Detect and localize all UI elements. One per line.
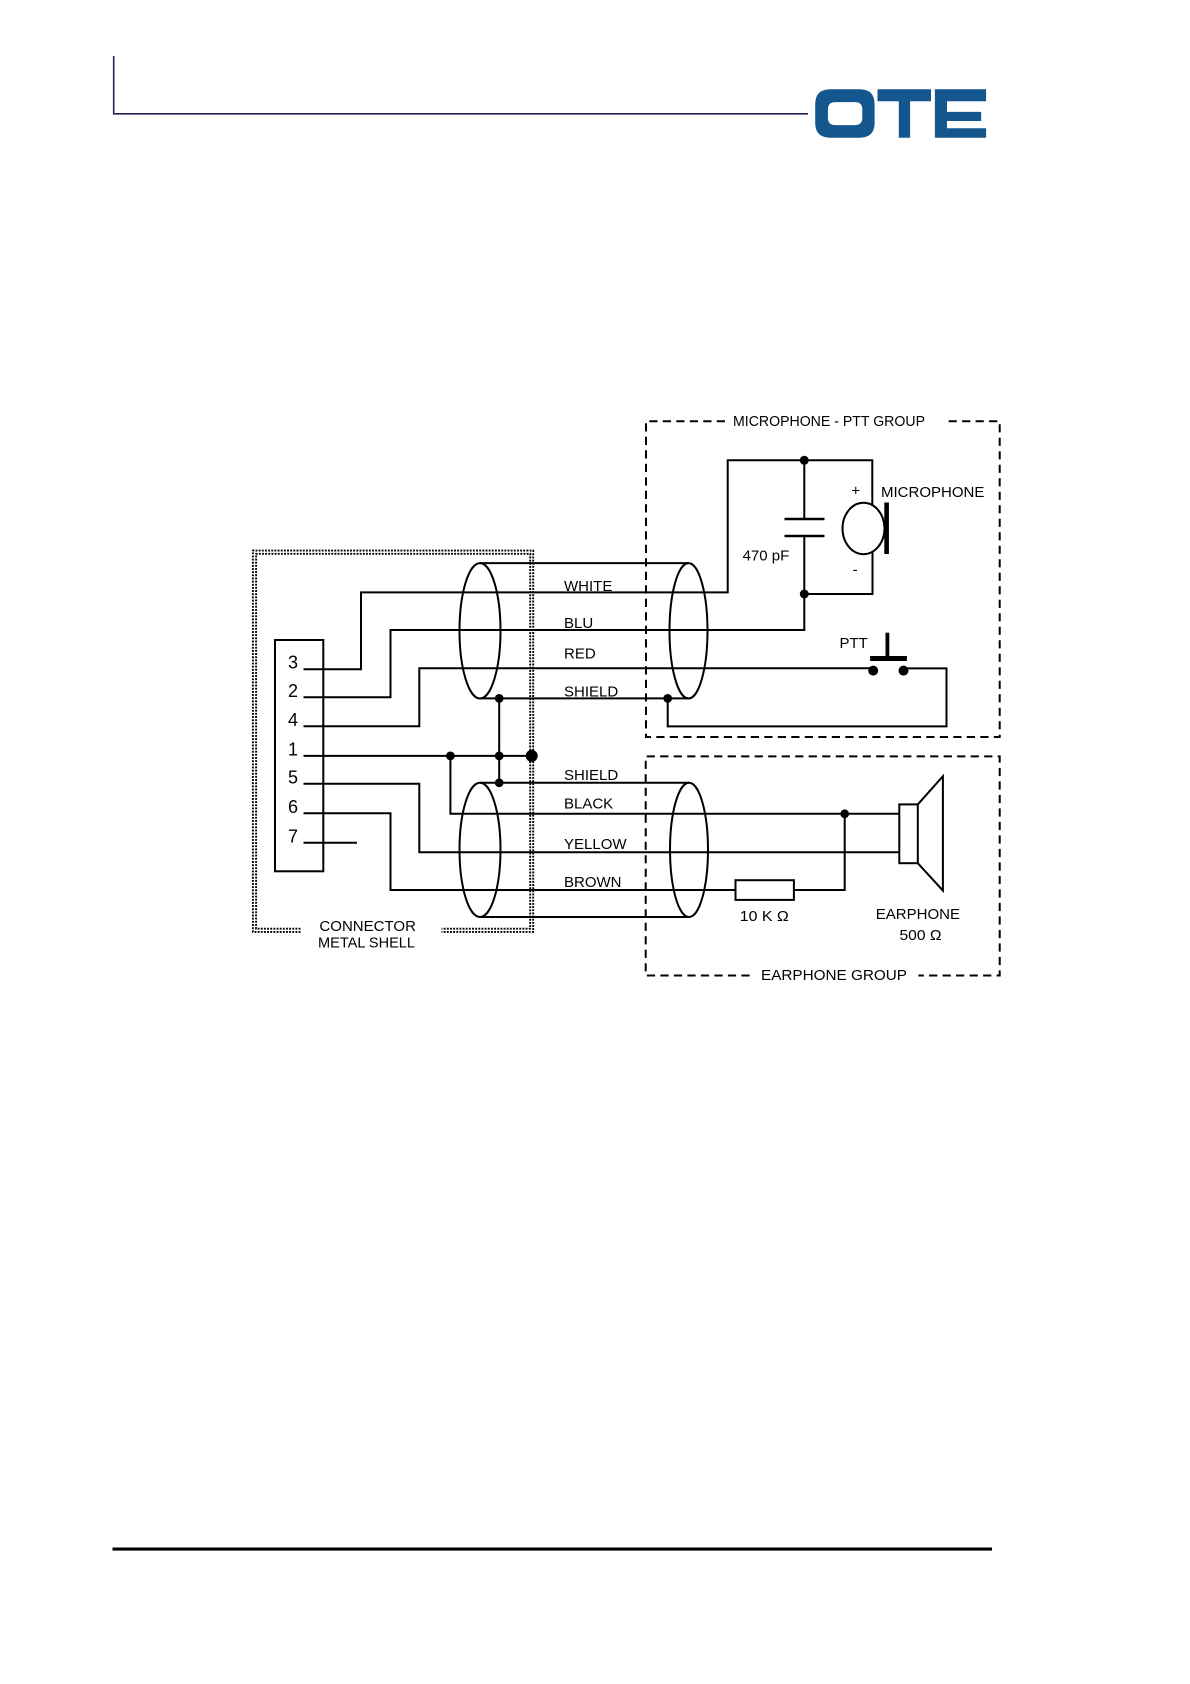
wire pin1 shield bus: [304, 755, 532, 757]
svg-text:+: +: [851, 483, 860, 500]
microphone M1 body: [843, 503, 885, 554]
svg-text:10 K Ω: 10 K Ω: [740, 908, 789, 925]
svg-text:1: 1: [288, 740, 298, 760]
svg-text:PTT: PTT: [840, 635, 868, 652]
cable 1 right ellipse: [670, 563, 708, 698]
svg-text:BLACK: BLACK: [564, 795, 613, 812]
wire pin6 BROWN to resistor: [304, 813, 736, 890]
svg-text:7: 7: [288, 827, 298, 847]
svg-text:EARPHONE GROUP: EARPHONE GROUP: [761, 967, 907, 984]
cable 2 left ellipse: [460, 783, 501, 917]
svg-text:470 pF: 470 pF: [743, 548, 790, 565]
connector pin box: [275, 640, 323, 871]
svg-text:3: 3: [288, 653, 298, 673]
junction dot shield bus at cable 2: [495, 778, 504, 787]
capacitor C1 470 pF leads: [803, 460, 805, 594]
wire resistor to BLACK junction: [794, 814, 845, 890]
PTT left contact dot: [868, 666, 878, 676]
wire pin5 YELLOW to earphone: [304, 784, 900, 852]
PTT plunger bar: [870, 656, 907, 661]
junction dot capacitor bottom: [800, 590, 809, 599]
svg-text:BROWN: BROWN: [564, 874, 622, 891]
wire pin3 WHITE to microphone +: [304, 460, 873, 669]
capacitor C1 plates: [785, 519, 825, 536]
svg-text:SHIELD: SHIELD: [564, 684, 618, 701]
cable 1 shield line: [480, 697, 689, 699]
junction dot shield right: [663, 694, 672, 703]
microphone diaphragm bar: [884, 503, 889, 555]
earphone driver rect: [899, 804, 918, 863]
svg-text:YELLOW: YELLOW: [564, 836, 627, 853]
OTE logo: [815, 89, 986, 137]
svg-text:6: 6: [288, 797, 298, 817]
svg-text:BLU: BLU: [564, 615, 593, 632]
PTT plunger stem: [886, 633, 890, 657]
junction dot shield bus on pin1 bus: [495, 752, 504, 761]
connector metal shell (dotted box, inner row): [256, 554, 530, 929]
wire shield node to BLACK: [450, 756, 899, 814]
microphone - ptt group dashed box: [646, 421, 1000, 737]
svg-text:500 Ω: 500 Ω: [900, 927, 942, 944]
bottom rule: [113, 1548, 993, 1551]
svg-text:-: -: [853, 562, 858, 579]
svg-text:CONNECTOR: CONNECTOR: [319, 918, 416, 935]
junction dot capacitor top: [800, 456, 809, 465]
cable 1 left ellipse: [460, 563, 501, 698]
junction dot black to earphone: [840, 809, 849, 818]
junction dot shield at bus top: [495, 694, 504, 703]
svg-text:MICROPHONE - PTT GROUP: MICROPHONE - PTT GROUP: [733, 413, 925, 430]
svg-text:EARPHONE: EARPHONE: [876, 906, 960, 923]
shield bus vertical wire: [498, 698, 500, 782]
svg-text:5: 5: [288, 768, 298, 788]
svg-text:METAL SHELL: METAL SHELL: [318, 934, 415, 951]
cable 2 bottom jacket line: [480, 916, 689, 918]
junction dot black riser on pin1 bus: [446, 752, 455, 761]
resistor R1 10K body: [736, 880, 794, 900]
wire pin2 BLU to capacitor bottom node: [304, 594, 805, 697]
svg-text:MICROPHONE: MICROPHONE: [881, 484, 984, 501]
svg-text:2: 2: [288, 681, 298, 701]
cable 1 top jacket line: [480, 562, 689, 564]
cable 2 right ellipse: [670, 783, 708, 917]
junction dot pin1 bus at shell (large): [526, 750, 538, 762]
svg-text:WHITE: WHITE: [564, 578, 612, 595]
connector metal shell (dotted box, outer row): [253, 551, 533, 932]
svg-text:4: 4: [288, 710, 298, 730]
svg-text:RED: RED: [564, 646, 596, 663]
earphone horn: [918, 776, 943, 890]
earphone group dashed box: [646, 756, 1000, 975]
cable 2 shield line: [480, 782, 689, 784]
PTT return wire to shield: [668, 668, 947, 726]
microphone bottom wire: [804, 553, 872, 595]
wire pin4 RED to PTT left contact: [304, 668, 874, 726]
svg-text:SHIELD: SHIELD: [564, 767, 618, 784]
wire pin7 stub: [304, 842, 358, 844]
header rule: [114, 56, 808, 114]
PTT right contact dot: [899, 666, 909, 676]
